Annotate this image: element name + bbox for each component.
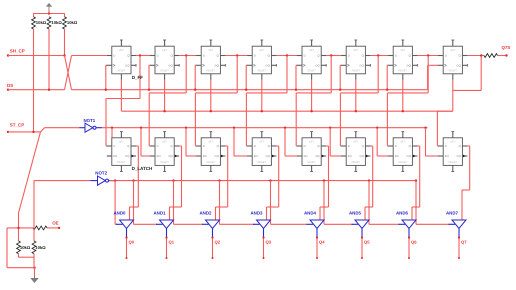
wire latch4 Q to AND3 input	[267, 146, 279, 220]
wire CLK tap to FF6	[339, 65, 342, 91]
wire Q7 tap to latch8 D	[437, 56, 481, 147]
latch U14 D_LATCH	[341, 132, 370, 172]
svg-text:EN: EN	[348, 154, 352, 158]
and-gate AND1	[154, 210, 174, 237]
svg-text:Q1: Q1	[169, 240, 175, 245]
wire CLK tap to FF4	[245, 65, 248, 91]
svg-text:SET: SET	[119, 141, 124, 144]
svg-text:Q7S: Q7S	[502, 45, 511, 50]
wire ST_CP horizontal	[8, 128, 79, 133]
wire latch3 Q to AND2 input	[216, 146, 228, 220]
latch U16 D_LATCH	[438, 132, 467, 172]
wire AND0 output Q0	[125, 236, 134, 259]
wire DS horizontal	[8, 89, 65, 91]
wire AND3 output Q3	[262, 236, 271, 259]
svg-text:SET: SET	[309, 49, 314, 52]
latch U9 D_LATCH	[107, 132, 136, 172]
svg-text:10kΩ: 10kΩ	[67, 20, 78, 25]
svg-text:SH_CP: SH_CP	[10, 49, 25, 54]
wire CLK tap to FF5	[295, 65, 298, 91]
wire EN tap to latch4	[233, 127, 248, 157]
svg-text:Q4: Q4	[319, 240, 325, 245]
resistor R5 (OE series)	[33, 226, 59, 230]
svg-text:RESET: RESET	[117, 161, 126, 164]
flip-flop U5 D_FF	[297, 40, 326, 80]
svg-text:RESET: RESET	[352, 161, 361, 164]
svg-text:RESET: RESET	[258, 161, 267, 164]
svg-text:RESET: RESET	[160, 70, 169, 73]
svg-text:D: D	[113, 54, 115, 58]
svg-text:EN: EN	[157, 154, 161, 158]
wire FF8 Q to Q7S resistor	[467, 54, 484, 56]
svg-text:SET: SET	[259, 141, 264, 144]
wire OE rail	[7, 227, 36, 269]
svg-text:AND2: AND2	[200, 210, 213, 215]
wire EN tap to latch5	[284, 127, 298, 157]
op NOT1 inverter	[79, 118, 102, 132]
svg-text:SET: SET	[309, 141, 314, 144]
node OE terminal	[52, 221, 60, 229]
svg-text:AND7: AND7	[446, 210, 459, 215]
wire CLK tap to FF1	[105, 65, 108, 91]
svg-text:RESET: RESET	[207, 70, 216, 73]
latch U15 D_LATCH	[388, 132, 417, 172]
wire enable tap to AND3 vertex	[218, 179, 254, 224]
wire Q3 tap to latch4 D	[246, 56, 287, 147]
svg-text:NOT1: NOT1	[84, 118, 96, 123]
svg-text:D: D	[304, 144, 306, 148]
svg-text:SET: SET	[162, 49, 167, 52]
wire AND5 output Q5	[361, 236, 370, 259]
resistor R4 (Q7S series)	[484, 54, 498, 58]
resistor R1 10k (pull-up ST_CP)	[32, 17, 47, 29]
wire FF8 reset drop	[452, 80, 454, 91]
wire AND4 output Q4	[316, 236, 325, 259]
svg-text:⊙Q: ⊙Q	[214, 154, 219, 158]
wire EN tap to latch8	[424, 127, 438, 157]
wire crossover SH_CP down / DS up	[65, 56, 72, 90]
wire EN tap to latch6	[329, 127, 342, 157]
wire FF1 reset drop	[120, 80, 122, 111]
wire CLK tap to FF3	[194, 65, 197, 91]
wire AND6 output Q6	[408, 236, 417, 259]
svg-text:SET: SET	[119, 49, 124, 52]
wire CLK tap to FF7	[386, 65, 389, 91]
flip-flop U4 D_FF	[247, 40, 276, 80]
wire Q6 chain FF7 to FF8	[417, 54, 438, 56]
ground symbol	[30, 276, 38, 283]
svg-text:⊙Q: ⊙Q	[406, 64, 411, 68]
wire EN tap to latch2	[140, 127, 151, 157]
svg-text:RESET: RESET	[352, 70, 361, 73]
svg-text:D: D	[395, 144, 397, 148]
flip-flop U2 D_FF	[150, 40, 179, 80]
svg-text:D_FF: D_FF	[132, 75, 144, 80]
svg-text:SET: SET	[450, 49, 455, 52]
svg-text:D: D	[203, 144, 205, 148]
svg-text:AND3: AND3	[251, 210, 264, 215]
wire Q6 tap to latch7 D	[387, 56, 428, 147]
svg-text:RESET: RESET	[160, 161, 169, 164]
node SH_CP input terminal	[7, 49, 25, 57]
node DS input terminal	[7, 83, 13, 91]
svg-text:EN: EN	[203, 154, 207, 158]
svg-text:D: D	[157, 144, 159, 148]
svg-text:EN: EN	[304, 154, 308, 158]
svg-text:⊙Q: ⊙Q	[359, 154, 364, 158]
wire EN tap to latch3	[185, 127, 197, 157]
wire Q2 tap to latch3 D	[195, 56, 237, 147]
svg-text:D: D	[304, 54, 306, 58]
flip-flop U1 D_FF	[107, 40, 136, 80]
latch U13 D_LATCH	[297, 132, 326, 172]
wire FF4 reset drop	[261, 80, 263, 113]
svg-text:RESET: RESET	[449, 161, 458, 164]
wire Q1 chain FF2 to FF3	[179, 54, 197, 56]
wire Q0 chain FF1 to FF2	[136, 54, 151, 56]
wire enable tap to AND0 vertex	[114, 179, 118, 224]
svg-text:D: D	[445, 144, 447, 148]
svg-text:DS: DS	[7, 83, 13, 88]
svg-text:RESET: RESET	[117, 70, 126, 73]
wire Q4 chain FF5 to FF6	[326, 54, 342, 56]
wire latch7 Q to AND6 input	[412, 146, 420, 220]
wire R3 bottom to SH_CP line	[64, 29, 66, 56]
svg-text:Q5: Q5	[364, 240, 370, 245]
wire CLK tap to FF8	[428, 65, 439, 89]
svg-text:RESET: RESET	[449, 70, 458, 73]
wire latch6 Q to AND5 input	[365, 146, 373, 220]
and-gate AND5	[349, 210, 369, 237]
svg-text:⊙Q: ⊙Q	[456, 64, 461, 68]
latch U12 D_LATCH	[247, 132, 276, 172]
svg-text:Q6: Q6	[411, 240, 417, 245]
svg-text:D: D	[348, 144, 350, 148]
wire latch5 Q to AND4 input	[320, 146, 329, 220]
svg-text:D: D	[445, 54, 447, 58]
wire latch1 Q to AND0 input	[130, 146, 139, 220]
svg-text:AND0: AND0	[114, 210, 127, 215]
svg-text:AND6: AND6	[396, 210, 409, 215]
latch U10 D_LATCH	[150, 132, 179, 172]
svg-text:EN: EN	[113, 154, 117, 158]
svg-text:AND5: AND5	[349, 210, 362, 215]
svg-text:RESET: RESET	[307, 70, 316, 73]
wire enable tap to AND7 vertex	[415, 179, 450, 224]
wire SH_CP clock rail	[72, 89, 428, 91]
svg-text:D: D	[254, 54, 256, 58]
latch U11 D_LATCH	[196, 132, 225, 172]
svg-text:D: D	[395, 54, 397, 58]
svg-text:⊙Q: ⊙Q	[406, 154, 411, 158]
svg-text:NOT2: NOT2	[95, 171, 107, 176]
wire NOT1 output EN rail	[102, 127, 428, 129]
svg-text:10kΩ: 10kΩ	[35, 245, 46, 250]
wire R1 bottom to ST_CP line	[33, 29, 35, 132]
svg-text:RESET: RESET	[258, 70, 267, 73]
and-gate AND6	[396, 210, 416, 237]
wire AND1 output Q1	[165, 236, 174, 259]
svg-text:SET: SET	[208, 141, 213, 144]
wire ST_CP diagonal to OE network	[19, 132, 41, 241]
wire OE to NOT2 input	[34, 181, 91, 228]
svg-text:AND1: AND1	[154, 210, 167, 215]
wire FF5 reset drop	[310, 80, 312, 113]
svg-text:10kΩ: 10kΩ	[20, 245, 31, 250]
flip-flop U6 D_FF	[341, 40, 370, 80]
svg-text:RESET: RESET	[399, 161, 408, 164]
wire FF2 reset drop	[163, 80, 165, 113]
svg-text:RESET: RESET	[399, 70, 408, 73]
svg-text:⊙Q: ⊙Q	[359, 64, 364, 68]
flip-flop U8 D_FF	[438, 40, 467, 80]
wire SH_CP horizontal	[8, 55, 65, 57]
svg-text:⊙Q: ⊙Q	[214, 64, 219, 68]
wire VCC rail to pull-up resistors	[34, 10, 65, 17]
svg-text:EN: EN	[395, 154, 399, 158]
wire EN tap to latch1	[107, 127, 113, 157]
svg-text:D: D	[157, 54, 159, 58]
svg-text:OE: OE	[52, 221, 58, 226]
svg-text:RESET: RESET	[207, 161, 216, 164]
wire AND7 output Q7	[458, 236, 467, 259]
and-gate AND2	[200, 210, 220, 237]
svg-text:RESET: RESET	[307, 161, 316, 164]
svg-text:Q7: Q7	[461, 240, 467, 245]
svg-text:SET: SET	[400, 49, 405, 52]
wire MR rail	[121, 110, 452, 112]
wire pull-down bottoms to ground	[19, 254, 35, 276]
resistor R2 10k (pull-up DS)	[47, 17, 62, 29]
svg-text:SET: SET	[450, 141, 455, 144]
svg-text:AND4: AND4	[304, 210, 317, 215]
and-gate AND0	[114, 210, 134, 237]
svg-text:ST_CP: ST_CP	[10, 122, 25, 127]
svg-text:Q0: Q0	[129, 240, 135, 245]
and-gate AND3	[251, 210, 271, 237]
svg-text:⊙Q: ⊙Q	[456, 154, 461, 158]
wire Q3 chain FF4 to FF5	[276, 54, 297, 56]
svg-text:⊙Q: ⊙Q	[265, 64, 270, 68]
wire FF7 reset drop	[402, 80, 404, 113]
svg-text:SET: SET	[353, 141, 358, 144]
wire latch2 Q to AND1 input	[170, 146, 182, 220]
svg-text:10kΩ: 10kΩ	[51, 20, 62, 25]
wire Q5 tap to latch6 D	[340, 56, 378, 147]
wire Q5 chain FF6 to FF7	[370, 54, 388, 56]
wire Q2 chain FF3 to FF4	[225, 54, 247, 56]
wire enable tap to AND1 vertex	[132, 179, 157, 224]
wire Q1 tap to latch2 D	[149, 56, 186, 147]
op NOT2 inverter	[91, 171, 115, 186]
wire DS to FF1 D pin	[72, 55, 107, 57]
svg-text:D: D	[348, 54, 350, 58]
node Q7S output terminal	[498, 45, 511, 57]
svg-text:SET: SET	[400, 141, 405, 144]
svg-text:10kΩ: 10kΩ	[36, 20, 47, 25]
and-gate AND7	[446, 210, 466, 237]
wire FF3 reset drop	[210, 80, 212, 113]
svg-text:SET: SET	[353, 49, 358, 52]
wire AND2 output Q2	[211, 236, 220, 259]
wire FF6 reset drop	[355, 80, 357, 113]
and-gate AND4	[304, 210, 324, 237]
svg-text:Q3: Q3	[266, 240, 272, 245]
svg-text:SET: SET	[162, 141, 167, 144]
node ST_CP input terminal	[7, 122, 25, 133]
svg-text:EN: EN	[445, 154, 449, 158]
flip-flop U3 D_FF	[196, 40, 225, 80]
svg-text:D: D	[113, 144, 115, 148]
flip-flop U7 D_FF	[388, 40, 417, 80]
resistor R3 10k (pull-up SH_CP)	[63, 17, 78, 29]
svg-text:D_LATCH: D_LATCH	[132, 166, 153, 171]
svg-text:D: D	[254, 144, 256, 148]
wire CLK tap to FF2	[148, 65, 151, 91]
wire enable tap to AND5 vertex	[323, 179, 353, 224]
wire latch8 Q to AND7 input	[462, 146, 470, 220]
wire NOT2 output enable rail	[110, 180, 417, 182]
resistor R6 10k (pull-down)	[17, 241, 31, 254]
wire EN tap to latch7	[376, 127, 389, 157]
svg-text:⊙Q: ⊙Q	[265, 154, 270, 158]
wire enable tap to AND4 vertex	[269, 179, 307, 224]
wire Q0 tap to latch1 D	[106, 56, 140, 147]
wire R2 bottom to DS line	[48, 29, 50, 90]
wire enable tap to AND2 vertex	[172, 179, 203, 224]
svg-text:SET: SET	[259, 49, 264, 52]
svg-text:EN: EN	[254, 154, 258, 158]
resistor R7 10k (pull-down)	[32, 228, 46, 254]
wire enable tap to AND6 vertex	[368, 179, 400, 224]
power VCC symbol	[46, 3, 52, 14]
svg-text:SET: SET	[208, 49, 213, 52]
wire Q4 tap to latch5 D	[296, 56, 331, 147]
svg-text:D: D	[203, 54, 205, 58]
svg-text:Q2: Q2	[215, 240, 221, 245]
